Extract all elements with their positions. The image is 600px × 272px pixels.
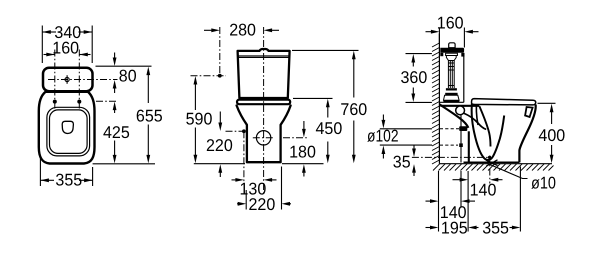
flush button xyxy=(449,43,455,48)
bowl front profile xyxy=(519,105,535,163)
svg-text:ø10: ø10 xyxy=(531,173,556,192)
cistern plan outline xyxy=(43,68,93,92)
dim line 340 xyxy=(42,31,56,33)
extension + dimension lines, left view xyxy=(40,26,155,187)
foot bottom xyxy=(464,161,520,163)
svg-text:220: 220 xyxy=(249,195,276,214)
arrow 160 right xyxy=(79,53,88,57)
cistern right wall xyxy=(463,53,465,102)
cistern front outline with button bump xyxy=(238,49,290,98)
dim 450 line xyxy=(327,104,329,118)
ext 160 right xyxy=(463,28,465,48)
svg-text:400: 400 xyxy=(538,126,565,145)
svg-text:760: 760 xyxy=(340,100,367,119)
bottom ref line (655/425) xyxy=(93,163,155,165)
arrow 220 left bottom xyxy=(218,164,222,173)
ext x520 xyxy=(519,167,521,232)
centerline point B vertical xyxy=(243,131,245,183)
svg-text:450: 450 xyxy=(316,119,343,138)
dia102 dashed bottom xyxy=(440,144,458,146)
arrow 355 left xyxy=(40,178,49,182)
dim 280 stems xyxy=(204,29,213,31)
arrow 280 right xyxy=(264,28,273,32)
pedestal rear wall xyxy=(468,131,470,162)
arrowheads middle view xyxy=(194,28,356,205)
lid clamp right xyxy=(461,53,464,57)
wall line xyxy=(438,34,440,164)
arrowheads right view xyxy=(382,30,554,230)
seat outer ring xyxy=(47,107,90,156)
arrow 180 bottom xyxy=(302,164,306,173)
svg-text:425: 425 xyxy=(103,123,130,142)
centerline point B horizontal xyxy=(226,130,244,132)
trap centre dot xyxy=(488,156,491,159)
trap U outer xyxy=(472,100,505,160)
ext 160 left (wall up) xyxy=(438,28,440,44)
cistern lid line 2 xyxy=(238,56,289,58)
arrowheads left view xyxy=(40,30,150,182)
cistern side: lid dark bar xyxy=(440,48,464,53)
svg-text:355: 355 xyxy=(482,219,509,238)
flush mechanism xyxy=(446,53,458,88)
crosshair mark xyxy=(65,75,69,84)
row1 140 stems xyxy=(453,179,462,181)
dim 130 stems xyxy=(232,179,239,181)
arrow 160 left xyxy=(46,53,55,57)
svg-text:220: 220 xyxy=(206,136,233,155)
arrow 450 top xyxy=(326,99,330,108)
cistern lid line 1 xyxy=(238,55,289,57)
valve bell xyxy=(444,95,460,100)
ext 220 bottom right xyxy=(281,167,283,210)
arrow 355 right xyxy=(84,178,93,182)
ext 400 top xyxy=(538,102,556,104)
svg-text:180: 180 xyxy=(289,143,316,162)
ext x461 xyxy=(460,171,462,208)
dim 655 line xyxy=(147,72,149,103)
svg-text:ø102: ø102 xyxy=(367,126,399,145)
arrow 80 bottom xyxy=(113,80,117,89)
arrow 655 top xyxy=(146,67,150,76)
arrow 760 top xyxy=(352,51,356,60)
arrow 220 left top xyxy=(218,123,222,132)
arrow 160 left xyxy=(431,30,440,34)
centerline horizontal hinge (425 ref) xyxy=(96,100,118,102)
ext line 355 right xyxy=(92,167,94,186)
dia10 leader xyxy=(488,164,528,179)
dia102 dashed top xyxy=(440,128,459,130)
bowl plan outline xyxy=(39,92,95,164)
arrow 590 top xyxy=(194,76,198,85)
row3 stems xyxy=(426,227,432,229)
ext 220 bottom left xyxy=(245,190,247,210)
dim 180 stems xyxy=(303,121,305,130)
outlet hole circle xyxy=(256,131,270,145)
ext 360 top xyxy=(406,53,432,55)
row2 140 stems xyxy=(426,200,432,202)
svg-text:355: 355 xyxy=(55,171,82,190)
dim 425 line xyxy=(114,108,116,114)
seat bar xyxy=(472,99,536,105)
fixing square B xyxy=(459,143,463,147)
arrow 80 top xyxy=(113,58,117,67)
seat hinge xyxy=(456,106,465,115)
dia102 top line xyxy=(380,128,432,130)
svg-text:360: 360 xyxy=(401,68,428,87)
drain centerline xyxy=(489,156,491,184)
arrow dia102 top xyxy=(382,120,386,129)
dim line 355 xyxy=(40,179,54,181)
svg-text:160: 160 xyxy=(437,14,464,33)
bowl rim band xyxy=(237,100,290,105)
arrow 220 bottom left xyxy=(238,202,247,206)
centerline vertical right (160) xyxy=(78,50,80,111)
svg-text:80: 80 xyxy=(119,66,137,85)
arrow row3 left-point xyxy=(468,226,477,230)
ext 360 bottom xyxy=(406,101,432,103)
dim 80 arrow stems xyxy=(114,53,116,61)
dim 35 dash-dot line xyxy=(412,156,490,158)
arrow 280 left xyxy=(211,28,220,32)
hole crosshair horizontal xyxy=(253,137,275,139)
svg-text:140: 140 xyxy=(470,181,497,200)
fixing point B xyxy=(242,129,246,133)
arrow row1 right xyxy=(490,178,499,182)
seat fixing hole right xyxy=(77,100,81,104)
bowl inner back diagonal xyxy=(479,106,490,146)
arrow 360 top xyxy=(411,54,415,63)
centerline horizontal through crosshair (80) xyxy=(48,79,118,81)
arrow 360 bottom xyxy=(411,94,415,103)
ext wall bottom xyxy=(438,171,440,232)
cistern bottom xyxy=(439,101,463,103)
dim 220 bottom stems xyxy=(237,203,240,205)
centerline inlet horizontal xyxy=(191,75,227,77)
pipe socket xyxy=(459,126,467,131)
trap inner curve xyxy=(476,100,478,126)
arrow 35 bottom xyxy=(412,164,416,173)
arrow 450 bottom xyxy=(326,155,330,164)
bowl rear platform xyxy=(440,105,479,107)
centerline inlet vertical xyxy=(219,27,221,76)
arrow row1 left xyxy=(460,178,469,182)
ext line 355 left xyxy=(39,156,41,186)
rim underside diagonal xyxy=(464,113,487,129)
dim 590 line xyxy=(194,82,196,111)
dim 400 line xyxy=(551,110,553,125)
ext x468 xyxy=(467,171,469,232)
dim 220 left stems xyxy=(219,112,221,124)
svg-text:35: 35 xyxy=(393,153,411,172)
arrow 340 right xyxy=(84,30,93,34)
ext line 340 left xyxy=(41,26,43,64)
cistern top right ext (760 ref) xyxy=(292,49,359,51)
centerline vertical middle xyxy=(263,27,265,196)
svg-text:590: 590 xyxy=(186,110,213,129)
bell dark base xyxy=(443,100,459,102)
arrow 425 top xyxy=(113,102,117,111)
arrow 130 left xyxy=(235,178,244,182)
arrow 590 bottom xyxy=(194,155,198,164)
arrow 400 bottom xyxy=(550,155,554,164)
rim band right ext (450 ref) xyxy=(293,97,333,99)
arrow 180 top xyxy=(302,129,306,138)
ext line 340 right xyxy=(91,26,93,64)
floor hatch xyxy=(433,164,554,171)
svg-text:195: 195 xyxy=(441,219,468,238)
seat inner ring xyxy=(50,110,88,153)
floor line right xyxy=(282,163,324,165)
dia102 arrow stems xyxy=(382,115,384,123)
valve dark band 2 xyxy=(445,93,457,96)
arrow 425 bottom xyxy=(113,155,117,164)
bowl front outline xyxy=(237,106,291,163)
svg-text:280: 280 xyxy=(229,21,256,40)
arrow 655 bottom xyxy=(146,155,150,164)
dim 360 line xyxy=(412,60,414,67)
inlet point A xyxy=(218,74,222,78)
centerline vertical left (160) xyxy=(54,50,56,111)
dim 35 arrow stems xyxy=(413,146,415,152)
arrow row2 left xyxy=(430,199,439,203)
flush water spout xyxy=(62,121,73,133)
arrow row3 355 right xyxy=(512,226,521,230)
arrow 760 bottom xyxy=(352,155,356,164)
lid clamp left xyxy=(440,53,443,56)
seat fixing hole left xyxy=(53,100,57,104)
drain X mark xyxy=(486,160,497,166)
svg-text:655: 655 xyxy=(136,106,163,125)
arrow 130 right xyxy=(264,178,273,182)
arrow row2 right xyxy=(461,199,470,203)
valve dark band 1 xyxy=(446,88,457,90)
arrow 220 bottom right xyxy=(282,202,291,206)
rear fixing vertical xyxy=(460,115,462,163)
svg-text:160: 160 xyxy=(52,38,79,57)
arrow dia102 bottom xyxy=(382,146,386,155)
cistern top ext (80/655 ref) xyxy=(96,65,152,67)
floor line xyxy=(439,163,552,165)
dim 160 stems xyxy=(426,31,433,33)
arrow 340 left xyxy=(42,30,51,34)
floor line left xyxy=(194,163,245,165)
dim line 160 xyxy=(44,54,55,56)
seat buffer xyxy=(525,107,533,117)
rear S-curve xyxy=(439,104,468,128)
arrow 35 top xyxy=(412,149,416,158)
arrow 400 top xyxy=(550,104,554,113)
hole crosshair right ext xyxy=(283,137,309,139)
dia102 bottom line xyxy=(380,144,432,146)
arrow row3 195 left xyxy=(430,226,439,230)
dim 760 line xyxy=(353,56,355,98)
wall hatch xyxy=(432,43,439,164)
arrow 160 right xyxy=(464,30,473,34)
